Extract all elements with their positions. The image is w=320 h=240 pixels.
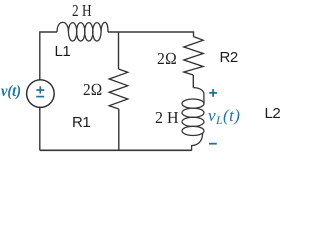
- voltage source minus sign: [36, 96, 44, 98]
- wire top (L1 to top-right corner, down to R2): [108, 32, 194, 37]
- label R1: [72, 114, 90, 131]
- voltage source v(t) circle: [27, 80, 55, 108]
- wire left-bottom (bottom wire to source bottom): [39, 108, 41, 151]
- plus sign for vL(t): [209, 89, 217, 97]
- label R2: [220, 49, 238, 66]
- inductor L2 (2 H vertical coil): [182, 88, 204, 151]
- minus sign for vL(t): [209, 143, 217, 145]
- wire left-top (source top to top-left corner to L1): [40, 32, 57, 80]
- resistor R2 (2 ohm zigzag): [184, 37, 203, 75]
- wire bottom: [40, 149, 192, 151]
- label 2 H for L1: [72, 1, 92, 21]
- wire middle branch top (junction to R1): [118, 32, 120, 69]
- wire middle branch bottom (R1 to bottom wire): [118, 109, 120, 151]
- label vL(t): [208, 106, 240, 128]
- label 2 ohm for R1: [83, 80, 102, 100]
- resistor R1 (2 ohm zigzag): [109, 69, 128, 109]
- label 2 ohm for R2: [157, 49, 177, 69]
- label v(t) source: [1, 83, 21, 101]
- wire R2 to L2: [192, 75, 194, 88]
- voltage source plus sign: [36, 86, 44, 93]
- label L2: [265, 105, 281, 122]
- inductor L1 (2 H horizontal coil): [57, 22, 108, 41]
- label 2 H for L2: [155, 108, 179, 128]
- label L1: [55, 43, 71, 60]
